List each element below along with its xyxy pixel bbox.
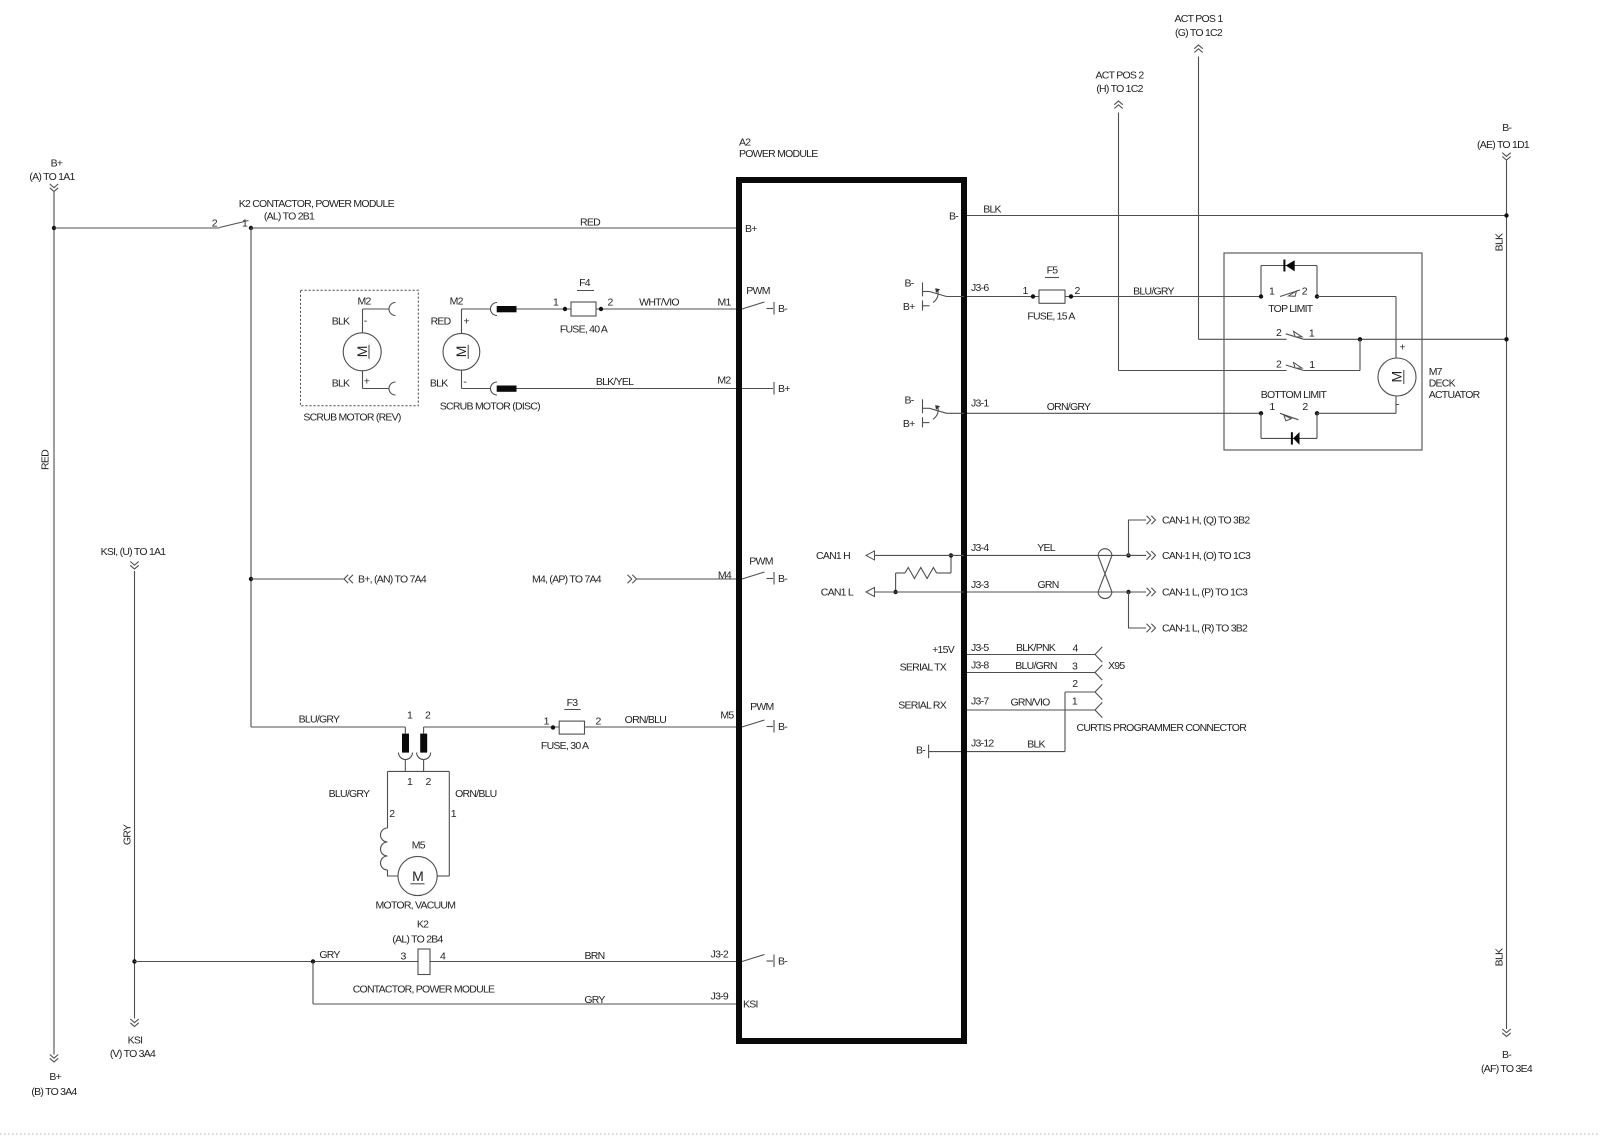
svg-text:RED: RED — [431, 315, 452, 327]
svg-text:PWM: PWM — [750, 701, 773, 713]
svg-text:+: + — [464, 316, 470, 328]
svg-text:+15V: +15V — [932, 644, 955, 656]
svg-text:BRN: BRN — [585, 950, 605, 962]
svg-text:BLK: BLK — [332, 315, 350, 327]
svg-text:(AL) TO 2B1: (AL) TO 2B1 — [264, 211, 315, 223]
wire RED to module B+ — [249, 217, 739, 231]
pin J3-6 half-bridge driver — [903, 278, 989, 313]
svg-text:2: 2 — [389, 808, 395, 820]
svg-text:J3-1: J3-1 — [971, 398, 989, 410]
svg-text:J3-3: J3-3 — [971, 579, 989, 591]
svg-text:J3-6: J3-6 — [971, 282, 989, 294]
svg-text:CURTIS PROGRAMMER CONNECTOR: CURTIS PROGRAMMER CONNECTOR — [1077, 722, 1248, 734]
pin J3-9 KSI — [711, 990, 758, 1010]
svg-text:BLK/YEL: BLK/YEL — [596, 376, 634, 388]
svg-text:M2: M2 — [357, 296, 371, 308]
svg-text:2: 2 — [212, 217, 218, 229]
svg-text:SCRUB MOTOR (REV): SCRUB MOTOR (REV) — [303, 412, 401, 424]
svg-text:J3-5: J3-5 — [971, 642, 989, 654]
svg-text:BLK/PNK: BLK/PNK — [1016, 642, 1056, 654]
svg-text:(AE) TO 1D1: (AE) TO 1D1 — [1477, 139, 1530, 151]
node B+ (AN) TO 7A4 — [249, 574, 427, 586]
svg-text:B-: B- — [916, 744, 926, 756]
wire X95 pin 2 — [1065, 678, 1102, 751]
pin J3-5 +15V — [932, 642, 989, 656]
svg-text:FUSE, 40 A: FUSE, 40 A — [560, 324, 608, 336]
svg-text:BLK: BLK — [1494, 233, 1506, 251]
pin M1 PWM driver — [717, 285, 788, 315]
wire BLK/PNK J3-5 to X95 pin 4 — [964, 642, 1102, 662]
svg-text:2: 2 — [1302, 286, 1308, 298]
svg-text:BLU/GRN: BLU/GRN — [1015, 660, 1057, 672]
svg-text:KSI: KSI — [128, 1034, 143, 1046]
svg-text:1: 1 — [451, 808, 457, 820]
wire BRN coil to J3-2 — [430, 950, 739, 962]
svg-text:CONTACTOR, POWER MODULE: CONTACTOR, POWER MODULE — [353, 984, 495, 996]
twisted pair — [1098, 549, 1112, 599]
svg-text:X95: X95 — [1108, 660, 1125, 672]
wire WHT/VIO M2 to M1 pin — [517, 297, 740, 309]
svg-text:GRY: GRY — [584, 994, 605, 1006]
svg-text:BLK: BLK — [332, 378, 350, 390]
svg-text:M4: M4 — [718, 570, 732, 582]
wire GRY KSI bus — [122, 571, 137, 1019]
wire BLK B- to right bus — [964, 204, 1507, 216]
wire BLU/GRY J3-6 to top limit — [964, 286, 1261, 298]
svg-text:M2: M2 — [717, 375, 731, 387]
svg-text:BOTTOM LIMIT: BOTTOM LIMIT — [1261, 389, 1328, 401]
diode top limit — [1283, 260, 1294, 272]
svg-text:K2 CONTACTOR, POWER MODULE: K2 CONTACTOR, POWER MODULE — [239, 198, 395, 210]
svg-text:BLU/GRY: BLU/GRY — [1133, 286, 1174, 298]
wire branch down from K2 — [250, 228, 252, 727]
fuse F3 — [541, 697, 602, 752]
svg-text:M4, (AP) TO 7A4: M4, (AP) TO 7A4 — [532, 574, 602, 586]
svg-text:YEL: YEL — [1037, 542, 1056, 554]
svg-text:M7: M7 — [1429, 366, 1443, 378]
svg-text:BLK: BLK — [1027, 739, 1045, 751]
svg-text:GRN/VIO: GRN/VIO — [1010, 696, 1050, 708]
svg-text:POWER MODULE: POWER MODULE — [739, 148, 818, 160]
svg-text:SERIAL RX: SERIAL RX — [898, 700, 946, 712]
svg-text:M5: M5 — [720, 710, 734, 722]
svg-text:BLK: BLK — [983, 204, 1001, 216]
wire BLK B- right bus — [1494, 161, 1509, 1029]
svg-text:GRY: GRY — [319, 949, 340, 961]
svg-text:M2: M2 — [450, 296, 464, 308]
svg-text:M5: M5 — [412, 839, 426, 851]
wire YEL J3-4 to twist — [964, 542, 1112, 555]
pin M4 PWM driver — [718, 556, 788, 585]
motor M5 vacuum — [329, 771, 497, 911]
pin J3-2 driver — [711, 948, 789, 967]
wire RED B+ bus — [40, 192, 56, 1055]
pin M5 PWM driver — [720, 701, 788, 733]
svg-text:CAN-1 H, (O) TO 1C3: CAN-1 H, (O) TO 1C3 — [1162, 550, 1251, 562]
limit switch lower 2-1 — [1119, 339, 1361, 371]
svg-text:GRY: GRY — [122, 824, 134, 845]
wire ORN/GRY J3-1 to bottom limit — [964, 401, 1261, 413]
contactor contact K2 — [212, 198, 395, 229]
node CAN-1 L (P) TO 1C3 — [1112, 587, 1248, 599]
svg-text:RED: RED — [580, 217, 601, 229]
svg-text:PWM: PWM — [749, 556, 772, 568]
svg-text:BLU/GRY: BLU/GRY — [299, 714, 340, 726]
svg-text:BLK: BLK — [430, 378, 448, 390]
svg-text:J3-4: J3-4 — [971, 542, 989, 554]
svg-text:ORN/BLU: ORN/BLU — [455, 788, 497, 800]
svg-text:(AF) TO 3E4: (AF) TO 3E4 — [1481, 1063, 1533, 1075]
svg-text:FUSE, 15 A: FUSE, 15 A — [1027, 311, 1075, 323]
scrub motor (REV) M2 — [301, 290, 419, 423]
wire BLK/YEL M2 to M2 pin — [517, 376, 740, 388]
svg-text:WHT/VIO: WHT/VIO — [639, 297, 679, 309]
CAN terminating resistor — [893, 553, 953, 594]
svg-text:(G) TO 1C2: (G) TO 1C2 — [1175, 27, 1223, 39]
node ACT POS 1 (G) TO 1C2 — [1175, 13, 1224, 339]
svg-text:KSI, (U) TO 1A1: KSI, (U) TO 1A1 — [101, 546, 167, 558]
wire B+ feed to K2 contact — [54, 227, 220, 229]
wire GRY to K2 coil — [135, 949, 419, 964]
node B+ (B) TO 3A4 — [31, 1055, 77, 1098]
svg-text:B-: B- — [949, 211, 959, 223]
svg-text:B-: B- — [1502, 1049, 1512, 1061]
limit switch upper 2-1 — [1199, 327, 1507, 341]
top limit switch — [1259, 266, 1319, 316]
contactor coil K2 — [353, 919, 495, 996]
pin J3-12 B- — [916, 738, 994, 759]
svg-text:FUSE, 30 A: FUSE, 30 A — [541, 740, 589, 752]
wire GRN J3-3 to twist — [964, 579, 1112, 592]
svg-text:2: 2 — [1072, 678, 1078, 690]
svg-text:F4: F4 — [579, 277, 591, 289]
svg-text:B+: B+ — [49, 1071, 61, 1083]
deck actuator assembly box — [1224, 253, 1422, 450]
svg-text:M: M — [412, 868, 423, 884]
connector vacuum motor pins 1 2 — [399, 710, 431, 772]
svg-text:CAN-1 L, (R) TO 3B2: CAN-1 L, (R) TO 3B2 — [1162, 623, 1248, 635]
svg-text:DECK: DECK — [1429, 378, 1456, 390]
svg-text:1: 1 — [1309, 359, 1315, 371]
pin J3-1 half-bridge driver — [903, 395, 989, 430]
svg-text:B+, (AN) TO 7A4: B+, (AN) TO 7A4 — [358, 574, 427, 586]
pin J3-4 CAN1 H — [816, 542, 989, 562]
svg-text:TOP LIMIT: TOP LIMIT — [1268, 303, 1314, 315]
svg-text:B-: B- — [1502, 122, 1512, 134]
svg-text:(AL) TO 2B4: (AL) TO 2B4 — [392, 934, 443, 946]
diode bottom limit — [1291, 432, 1300, 445]
svg-text:M1: M1 — [717, 297, 731, 309]
fuse F5 — [1022, 265, 1080, 323]
node B- (AF) TO 3E4 — [1481, 1029, 1533, 1075]
wire BLK J3-12 — [929, 739, 1065, 752]
node CAN-1 L (R) TO 3B2 — [1129, 592, 1249, 635]
svg-text:J3-2: J3-2 — [711, 948, 729, 960]
svg-text:J3-9: J3-9 — [711, 990, 729, 1002]
svg-text:J3-12: J3-12 — [971, 738, 994, 750]
svg-text:ACT POS 1: ACT POS 1 — [1175, 13, 1224, 25]
node B+ (A) TO 1A1 — [29, 158, 75, 192]
wire GRY to J3-9 — [313, 962, 739, 1007]
svg-text:PWM: PWM — [746, 285, 769, 297]
svg-text:SERIAL TX: SERIAL TX — [900, 662, 947, 674]
pin J3-3 CAN1 L — [821, 579, 990, 599]
wire ORN/BLU to M5 pin — [424, 714, 739, 727]
svg-text:(V) TO 3A4: (V) TO 3A4 — [110, 1048, 156, 1060]
svg-text:+: + — [1399, 341, 1405, 353]
svg-text:(H) TO 1C2: (H) TO 1C2 — [1096, 83, 1143, 95]
svg-text:CAN1 L: CAN1 L — [821, 587, 854, 599]
motor M7 deck actuator — [1317, 297, 1481, 414]
svg-text:ORN/GRY: ORN/GRY — [1047, 401, 1091, 413]
node CAN-1 H (O) TO 1C3 — [1112, 550, 1251, 562]
svg-text:MOTOR, VACUUM: MOTOR, VACUUM — [376, 900, 456, 912]
bottom limit switch — [1259, 389, 1328, 439]
svg-text:CAN1 H: CAN1 H — [816, 550, 850, 562]
svg-text:CAN-1 H, (Q) TO 3B2: CAN-1 H, (Q) TO 3B2 — [1162, 515, 1250, 527]
wire BLU/GRN J3-8 to X95 pin 3 — [964, 660, 1125, 680]
svg-text:J3-8: J3-8 — [971, 660, 989, 672]
svg-text:SCRUB MOTOR (DISC): SCRUB MOTOR (DISC) — [440, 400, 540, 412]
node M4 (AP) TO 7A4 — [532, 574, 739, 586]
svg-text:A2: A2 — [739, 136, 751, 148]
svg-text:ACT POS 2: ACT POS 2 — [1096, 69, 1145, 81]
pin J3-8 SERIAL TX — [900, 660, 990, 674]
svg-text:+: + — [364, 375, 370, 387]
scrub motor (DISC) M2 — [430, 296, 540, 413]
node B- (AE) TO 1D1 — [1477, 122, 1530, 160]
svg-text:GRN: GRN — [1037, 579, 1058, 591]
svg-text:ORN/BLU: ORN/BLU — [625, 714, 667, 726]
svg-text:BLK: BLK — [1494, 948, 1506, 966]
svg-text:(B) TO 3A4: (B) TO 3A4 — [31, 1086, 77, 1098]
power module A2 — [739, 136, 964, 1041]
svg-text:K2: K2 — [417, 919, 429, 931]
wire BLU/GRY to vacuum connector — [251, 714, 405, 727]
svg-text:ACTUATOR: ACTUATOR — [1429, 389, 1481, 401]
svg-text:KSI: KSI — [743, 999, 758, 1011]
wire GRN/VIO J3-7 to X95 pin 1 — [964, 696, 1247, 734]
node CAN-1 H (Q) TO 3B2 — [1126, 515, 1250, 558]
node ACT POS 2 (H) TO 1C2 — [1096, 69, 1145, 370]
svg-text:1: 1 — [242, 217, 248, 229]
svg-text:(A) TO 1A1: (A) TO 1A1 — [29, 171, 75, 183]
fuse F4 — [553, 277, 614, 336]
svg-text:CAN-1 L, (P) TO 1C3: CAN-1 L, (P) TO 1C3 — [1162, 587, 1248, 599]
svg-text:F5: F5 — [1047, 265, 1059, 277]
svg-text:J3-7: J3-7 — [971, 696, 989, 708]
node KSI (V) TO 3A4 — [110, 1019, 156, 1060]
pin M2 — [717, 375, 790, 396]
svg-text:B+: B+ — [745, 223, 757, 235]
svg-text:B+: B+ — [51, 158, 63, 170]
svg-text:BLU/GRY: BLU/GRY — [329, 788, 370, 800]
node KSI (U) TO 1A1 — [101, 546, 167, 569]
svg-text:RED: RED — [40, 449, 52, 470]
pin J3-7 SERIAL RX — [898, 696, 989, 712]
svg-text:F3: F3 — [567, 697, 579, 709]
